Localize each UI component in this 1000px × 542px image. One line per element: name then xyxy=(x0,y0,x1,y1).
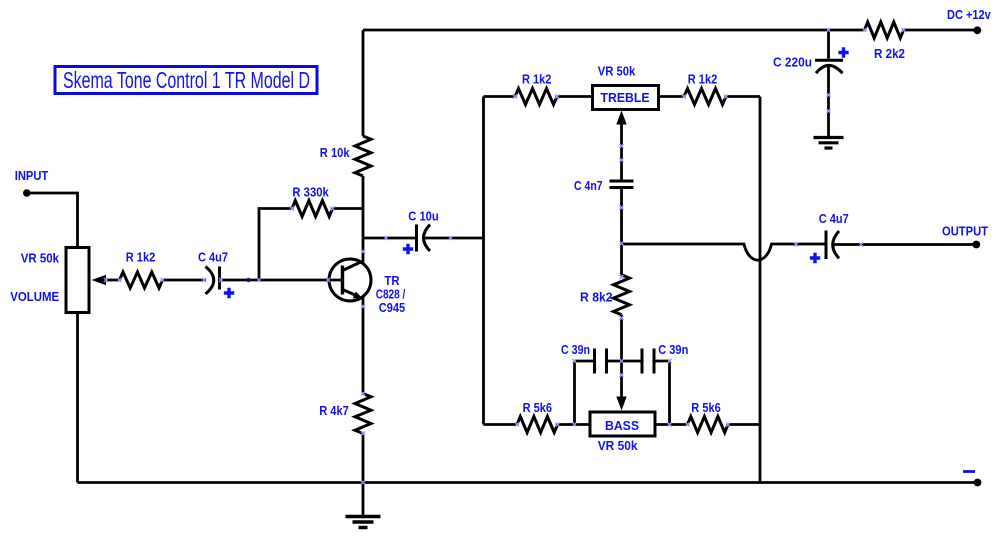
node markers xyxy=(104,28,906,485)
capacitor C 10u (electrolytic) xyxy=(403,210,439,255)
node base junction xyxy=(246,278,250,282)
wire C4u7 to OUTPUT xyxy=(833,243,977,246)
ground (emitter) xyxy=(346,517,381,528)
capacitor C 4u7 (output, electrolytic) xyxy=(810,212,849,263)
capacitor C 220u (electrolytic) xyxy=(773,30,849,137)
svg-text:OUTPUT: OUTPUT xyxy=(942,225,988,239)
svg-text:TR: TR xyxy=(384,274,399,288)
svg-text:R 5k6: R 5k6 xyxy=(523,401,552,415)
wire to right rail xyxy=(728,423,760,426)
svg-text:C 4n7: C 4n7 xyxy=(574,179,603,193)
node INPUT terminal xyxy=(15,169,49,197)
svg-text:BASS: BASS xyxy=(605,419,639,433)
treble wiper arrow xyxy=(616,111,626,125)
wire emitter down to R4k7 xyxy=(362,297,365,394)
svg-text:C945: C945 xyxy=(379,301,405,315)
svg-text:TREBLE: TREBLE xyxy=(601,91,650,105)
svg-text:R 1k2: R 1k2 xyxy=(688,72,718,86)
svg-text:DC +12v: DC +12v xyxy=(947,8,991,22)
svg-text:R 5k6: R 5k6 xyxy=(691,401,720,415)
svg-text:R 8k2: R 8k2 xyxy=(580,291,613,305)
capacitor C 39n (left) xyxy=(561,343,607,374)
svg-text:C 4u7: C 4u7 xyxy=(819,212,849,226)
wire collector to C10u xyxy=(363,237,417,240)
wire treble pot to R1k2 right xyxy=(659,95,685,98)
svg-text:C 10u: C 10u xyxy=(408,210,439,224)
title box: Skema Tone Control 1 TR Model D xyxy=(55,67,317,94)
resistor R 8k2 xyxy=(580,275,629,315)
resistor R 1k2 (input) xyxy=(120,251,163,289)
svg-text:R 1k2: R 1k2 xyxy=(522,72,552,86)
svg-text:R 1k2: R 1k2 xyxy=(126,251,156,265)
bass wiper arrow xyxy=(616,397,626,411)
wire to right rail xyxy=(726,95,760,98)
svg-text:VR 50k: VR 50k xyxy=(21,251,59,265)
wire treble row left xyxy=(484,95,516,98)
wire output line with hop over right rail xyxy=(622,244,827,260)
potentiometer VR 50k BASS xyxy=(590,412,655,453)
svg-text:INPUT: INPUT xyxy=(15,169,49,183)
resistor R 4k7 xyxy=(319,394,371,434)
transistor Q1 TR C828/C945 xyxy=(329,259,406,315)
wire wiper to C4n7 xyxy=(620,122,623,181)
svg-text:Skema Tone Control 1 TR Model: Skema Tone Control 1 TR Model D xyxy=(63,67,310,93)
wire C39n row right leg xyxy=(654,361,670,425)
svg-text:R 4k7: R 4k7 xyxy=(319,404,349,418)
wire pot wiper to R1 xyxy=(104,279,120,282)
wire R8k2 to bass wiper arrow xyxy=(620,315,623,398)
potentiometer VR 50k VOLUME xyxy=(10,248,106,313)
resistor R 5k6 (left) xyxy=(517,401,558,433)
capacitor C 39n (right) xyxy=(642,343,688,374)
capacitor C 4n7 xyxy=(574,179,633,193)
wire to bass pot xyxy=(558,423,591,426)
resistor R 5k6 (right) xyxy=(688,401,729,433)
svg-text:C 39n: C 39n xyxy=(658,343,688,357)
wire C39n row left leg xyxy=(575,361,595,425)
svg-text:C 220u: C 220u xyxy=(773,55,812,69)
svg-text:C 39n: C 39n xyxy=(561,343,590,357)
ground (C220u) xyxy=(814,138,844,149)
wire input to volume pot top xyxy=(27,193,78,248)
wire C10u to tone stack left rail xyxy=(424,237,484,240)
wire DC +12v top rail xyxy=(363,29,977,32)
wire to treble pot xyxy=(557,95,593,98)
svg-text:VOLUME: VOLUME xyxy=(10,290,59,304)
resistor R 1k2 (treble right) xyxy=(684,72,726,104)
wire left rail of tone stack xyxy=(482,97,485,425)
wire R10k to collector xyxy=(362,176,365,263)
capacitor C 4u7 (input, electrolytic) xyxy=(198,251,234,299)
svg-text:R 2k2: R 2k2 xyxy=(874,47,905,61)
resistor R 330k (feedback) xyxy=(259,186,363,281)
svg-text:R 10k: R 10k xyxy=(320,146,350,160)
wire bottom ground rail xyxy=(78,481,978,484)
svg-text:C828 /: C828 / xyxy=(376,288,406,302)
wire pot bottom to ground rail xyxy=(76,313,79,483)
node OUTPUT terminal xyxy=(942,225,988,249)
resistor R 1k2 (treble left) xyxy=(515,72,557,104)
node negative terminal xyxy=(963,472,981,487)
wire R1k2 to C4u7 xyxy=(163,279,207,282)
wire bass row left xyxy=(484,423,518,426)
wire between C39n caps xyxy=(607,360,643,363)
svg-text:R 330k: R 330k xyxy=(292,186,328,200)
resistor R 2k2 xyxy=(865,22,906,61)
wire right rail of tone stack xyxy=(759,97,762,483)
svg-text:VR 50k: VR 50k xyxy=(598,64,636,78)
node DC +12v terminal xyxy=(947,8,991,34)
svg-text:VR 50k: VR 50k xyxy=(598,439,638,453)
wire R4k7 to bottom rail and ground xyxy=(362,434,365,517)
wire top rail to R10k xyxy=(362,30,365,136)
wire bass pot to R5k6 right xyxy=(655,423,688,426)
wire C4n7 down to output junction and R8k2 xyxy=(620,188,623,275)
wire C4u7 to transistor base xyxy=(220,279,342,282)
resistor R 10k xyxy=(320,136,371,176)
potentiometer VR 50k TREBLE xyxy=(593,64,659,109)
svg-text:C 4u7: C 4u7 xyxy=(198,251,228,265)
